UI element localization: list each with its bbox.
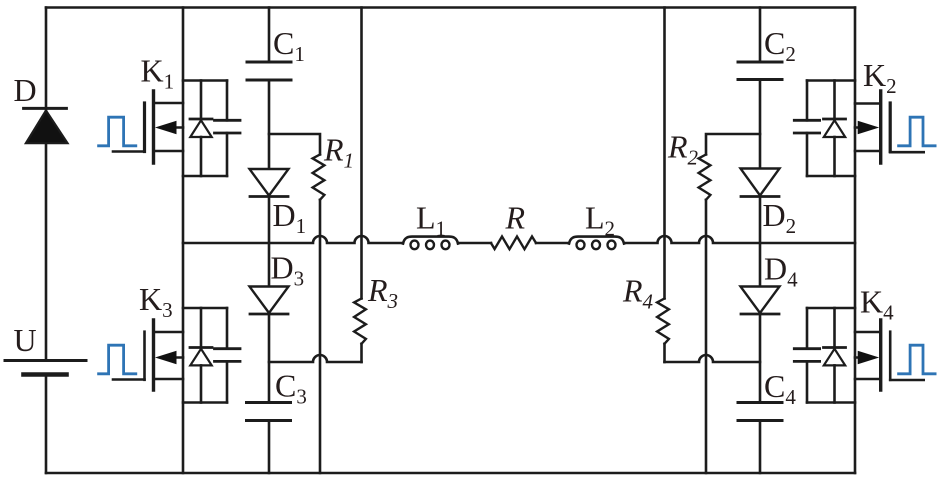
gate pulse K1 [99,117,136,146]
svg-text:C4: C4 [764,368,796,409]
snubber network of K2 (body diode + cap) [794,81,855,177]
resistor R4 [657,8,669,363]
battery U [5,361,86,375]
diode D [24,108,68,143]
snubber network of K3 (body diode + cap) [183,308,240,403]
svg-text:R1: R1 [323,132,354,173]
resistor R (middle) [491,237,536,250]
capacitor C4 [738,403,782,421]
svg-text:R2: R2 [667,129,699,170]
wire left C/D column [268,8,271,474]
svg-text:C1: C1 [273,25,305,66]
wire middle rail with crossover hops [183,236,855,243]
svg-text:R4: R4 [622,273,654,314]
MOSFET K1 [113,91,183,163]
diode D3 [250,287,289,315]
svg-text:D4: D4 [764,251,798,292]
diode D2 [741,169,780,197]
capacitor C1 [247,62,291,80]
resistor R3 [354,8,366,363]
svg-text:K3: K3 [139,281,173,322]
wire left bridge column [182,8,185,474]
svg-text:L2: L2 [585,200,615,241]
capacitor C3 [247,403,291,421]
wire left rail upper (D branch) [45,8,48,361]
MOSFET K4 [855,320,924,390]
diode D4 [741,287,780,315]
svg-text:U: U [14,322,37,358]
wire right C/D column [759,8,762,474]
MOSFET K2 [855,91,924,163]
capacitor C2 [738,62,782,80]
wire bottom rail [46,472,855,475]
wire top rail [46,6,855,9]
wire left rail lower [45,375,48,473]
inductor L2 [569,237,624,250]
svg-text:D3: D3 [271,250,305,291]
svg-text:K4: K4 [860,284,894,325]
svg-text:D1: D1 [273,197,307,238]
resistor R2 [699,134,760,473]
gate pulse K2 [899,117,936,146]
MOSFET K3 [113,320,183,390]
svg-text:R3: R3 [367,272,398,313]
diode D1 [250,169,289,197]
snubber network of K4 (body diode + cap) [794,308,855,403]
svg-text:D: D [14,72,37,108]
inductor L1 [403,237,458,250]
wire R4 to C4/D4 junction with hop over R2 [665,355,761,362]
gate pulse K4 [899,345,936,374]
svg-text:D2: D2 [763,197,797,238]
gate pulse K3 [99,345,136,374]
svg-text:K1: K1 [141,53,175,94]
svg-text:R: R [505,200,526,236]
wire R3 to C3/D3 junction with hop over R1 [269,355,362,362]
wire right bridge column [854,8,857,474]
svg-text:K2: K2 [863,57,897,98]
svg-text:L1: L1 [416,200,446,241]
svg-text:C2: C2 [764,25,796,66]
resistor R1 [269,134,324,473]
snubber network of K1 (body diode + cap) [183,81,240,177]
svg-text:C3: C3 [275,367,307,408]
